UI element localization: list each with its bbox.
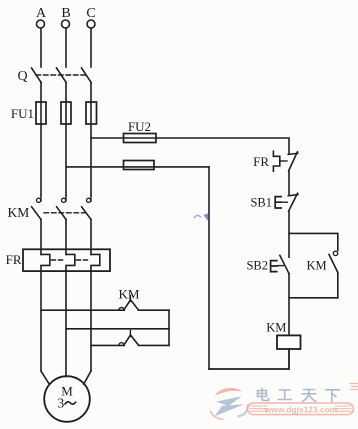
- aux run contact KM hook circle: [333, 251, 337, 255]
- thermal relay FR outline box: [23, 249, 110, 271]
- watermark char xia: [326, 390, 340, 402]
- control rail segment below SB2: [288, 274, 290, 336]
- watermark logo red crescent: [215, 388, 243, 396]
- svg-text:FR: FR: [253, 154, 269, 169]
- thermal relay FR heater element 2: [66, 254, 75, 376]
- blue artifact triangle: [204, 213, 210, 223]
- wire control line 2 from phase B: [66, 166, 209, 168]
- start button SB2 actuator E: [271, 261, 277, 272]
- aux contact branch 2 wire left: [91, 344, 124, 346]
- middle branch wire: [66, 328, 169, 330]
- stop button SB1 actuator E: [275, 197, 281, 208]
- coil KM rectangle: [277, 335, 301, 349]
- watermark url pill: [248, 403, 354, 415]
- aux contact branch 1 wire right: [138, 309, 169, 311]
- control rail segment below FR contact: [288, 171, 290, 195]
- wire phase C upper: [90, 28, 92, 67]
- switch Q blade pole 3: [82, 68, 92, 82]
- contactor KM main contact pole 2 line end: [65, 196, 67, 202]
- motor lead C diagonal: [84, 371, 91, 384]
- contactor KM main contact pole 2 blade: [57, 207, 66, 220]
- motor tilde: [65, 402, 76, 404]
- fuse FU2 lower: [124, 161, 155, 170]
- svg-text:SB1: SB1: [250, 196, 272, 210]
- terminal B circle: [62, 20, 70, 28]
- wire phase A middle: [40, 82, 42, 195]
- stop button SB1 link dash: [282, 201, 287, 203]
- wire return rail left: [208, 167, 210, 369]
- control rail segment below SB1: [288, 211, 290, 257]
- parallel branch bottom wire: [289, 297, 338, 299]
- aux branch right vertical wire: [168, 310, 170, 345]
- parallel branch top wire: [289, 233, 338, 250]
- motor lead A diagonal: [41, 371, 49, 384]
- wire phase C middle: [90, 82, 92, 195]
- contactor KM main contact pole 1 blade: [32, 207, 41, 220]
- thermal relay FR heater element 1: [41, 254, 50, 371]
- svg-text:C: C: [86, 6, 95, 21]
- svg-text:www.dgjs123.com: www.dgjs123.com: [264, 404, 337, 414]
- aux contact branch 2 wire right: [138, 344, 169, 346]
- switch Q blade pole 1: [32, 68, 42, 82]
- contactor KM linkage dashed line: [44, 212, 86, 214]
- wire control line 1 from phase C to right rail: [91, 138, 289, 154]
- watermark logo red bottom-left arc: [211, 412, 223, 420]
- contactor KM main contact pole 3 blade: [82, 207, 91, 220]
- svg-text:KM: KM: [266, 320, 286, 334]
- parallel branch right rail lower: [337, 272, 339, 297]
- contactor KM main contact pole 3 line end: [90, 196, 92, 202]
- watermark logo blue lower wedge: [215, 404, 244, 416]
- blue artifact squiggle: [195, 215, 201, 217]
- fuse FU1 pole 1: [36, 102, 46, 124]
- watermark url stripes left: [250, 406, 267, 411]
- svg-text:3: 3: [57, 397, 64, 412]
- wire phase B lower: [65, 219, 67, 254]
- contactor KM main contact pole 3 hook: [87, 198, 91, 202]
- svg-text:FU2: FU2: [128, 119, 151, 134]
- aux contact 2 fixed bump: [119, 343, 124, 346]
- fuse FU1 pole 2: [61, 102, 71, 124]
- svg-text:B: B: [61, 6, 70, 21]
- wire phase A lower: [40, 219, 42, 254]
- thermal relay FR linkage dashes: [52, 259, 90, 261]
- svg-text:KM: KM: [119, 287, 140, 302]
- aux run contact KM blade: [329, 255, 338, 273]
- watermark logo blue bottom-right arc: [239, 406, 248, 417]
- aux contact 1 fixed bump: [119, 308, 124, 311]
- svg-text:KM: KM: [8, 205, 30, 220]
- watermark char tian: [303, 390, 316, 402]
- svg-text:KM: KM: [307, 259, 327, 273]
- contactor KM main contact pole 2 hook: [62, 198, 66, 202]
- fuse FU1 pole 3: [86, 102, 97, 124]
- svg-text:FU1: FU1: [11, 106, 34, 121]
- contactor KM main contact pole 1 hook: [37, 198, 41, 202]
- watermark url stripes right: [335, 406, 351, 411]
- thermal contact FR actuator bracket: [273, 151, 279, 171]
- thermal contact FR blade: [289, 152, 298, 171]
- start button SB2 blade: [280, 255, 289, 273]
- aux contact 1 blade: [124, 300, 138, 310]
- svg-text:A: A: [36, 6, 47, 21]
- aux contact 2 tick: [129, 331, 131, 337]
- terminal A circle: [37, 20, 45, 28]
- wire phase A upper: [40, 28, 42, 67]
- watermark char dian: [258, 389, 269, 401]
- control rail below coil and bottom wire: [209, 349, 289, 369]
- watermark logo blue upper wedge: [216, 396, 242, 406]
- svg-text:FR: FR: [6, 252, 22, 267]
- thermal contact FR tick: [288, 153, 298, 154]
- stop button SB1 tick: [288, 195, 298, 196]
- fuse FU2 upper: [124, 134, 157, 143]
- switch Q blade pole 2: [57, 68, 67, 82]
- contactor KM main contact pole 1 line end: [40, 196, 42, 202]
- motor M circle: [44, 376, 90, 422]
- aux contact branch 1 wire left: [41, 309, 124, 311]
- red partial glyph right edge: [350, 384, 358, 390]
- aux contact 2 blade: [124, 335, 138, 345]
- start button SB2 link dash: [278, 265, 283, 267]
- thermal contact FR link dash: [281, 160, 287, 162]
- switch Q linkage dashed line: [36, 74, 86, 76]
- aux contact 1 tick: [129, 295, 131, 301]
- watermark char gong: [279, 390, 292, 400]
- wire phase B upper: [65, 28, 67, 67]
- svg-text:Q: Q: [17, 69, 27, 84]
- stop button SB1 blade: [289, 193, 298, 211]
- wire phase C lower: [90, 219, 92, 254]
- thermal relay FR heater element 3: [91, 254, 100, 371]
- wire phase B middle: [65, 82, 67, 195]
- terminal C circle: [87, 20, 95, 28]
- svg-text:SB2: SB2: [246, 259, 268, 273]
